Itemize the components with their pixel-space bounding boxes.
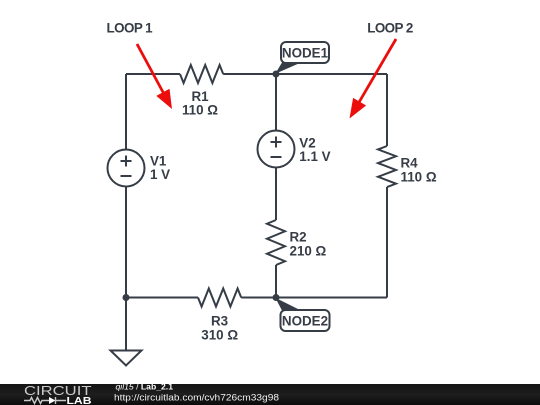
wire ground stub xyxy=(125,298,127,351)
LOOP 1 arrow xyxy=(137,44,172,109)
resistor R4 xyxy=(378,146,437,187)
svg-text:R2: R2 xyxy=(290,230,307,245)
svg-text:http://circuitlab.com/cvh726cm: http://circuitlab.com/cvh726cm33g98 xyxy=(114,393,279,403)
svg-text:1.1 V: 1.1 V xyxy=(299,149,330,164)
svg-text:LOOP 2: LOOP 2 xyxy=(367,20,413,35)
svg-text:310 Ω: 310 Ω xyxy=(201,328,238,343)
svg-text:R1: R1 xyxy=(191,89,209,104)
voltage source V1 xyxy=(108,150,171,187)
wire left vertical lower xyxy=(125,187,127,298)
node NODE2 junction dot xyxy=(273,294,280,301)
ground xyxy=(111,351,142,366)
wire right vertical upper xyxy=(386,74,388,146)
voltage source V2 xyxy=(258,131,331,168)
footer bar xyxy=(0,384,540,405)
wire bottom-left horizontal segment xyxy=(126,297,198,299)
node ground junction dot xyxy=(123,294,130,301)
NODE1 callout xyxy=(275,42,329,74)
svg-text:LAB: LAB xyxy=(67,395,92,405)
footer logo resistor-diode line xyxy=(24,397,66,404)
resistor R3 xyxy=(198,289,241,343)
svg-text:1 V: 1 V xyxy=(150,167,170,182)
svg-text:qil15 / Lab_2.1: qil15 / Lab_2.1 xyxy=(116,381,174,391)
resistor R1 xyxy=(180,65,223,118)
svg-text:NODE2: NODE2 xyxy=(282,314,328,329)
wire middle vertical between V2 and R2 xyxy=(275,168,277,221)
svg-text:110 Ω: 110 Ω xyxy=(182,103,218,118)
svg-text:NODE1: NODE1 xyxy=(282,46,329,61)
wire top-left horizontal segment xyxy=(126,73,180,75)
wire middle vertical upper xyxy=(275,74,277,131)
wire left vertical upper xyxy=(125,74,127,150)
svg-text:210 Ω: 210 Ω xyxy=(290,243,327,258)
resistor R2 xyxy=(267,220,327,265)
LOOP 2 arrow xyxy=(350,39,397,119)
svg-text:LOOP 1: LOOP 1 xyxy=(107,20,154,35)
svg-text:R4: R4 xyxy=(401,155,419,170)
svg-text:R3: R3 xyxy=(211,313,228,328)
wire middle vertical lower xyxy=(275,265,277,298)
node NODE1 junction dot xyxy=(273,71,280,78)
NODE2 callout xyxy=(275,298,329,331)
wire top-right horizontal segment xyxy=(223,73,387,75)
svg-text:110 Ω: 110 Ω xyxy=(401,170,437,185)
wire right vertical lower xyxy=(386,187,388,298)
wire bottom-right horizontal segment xyxy=(241,297,387,299)
